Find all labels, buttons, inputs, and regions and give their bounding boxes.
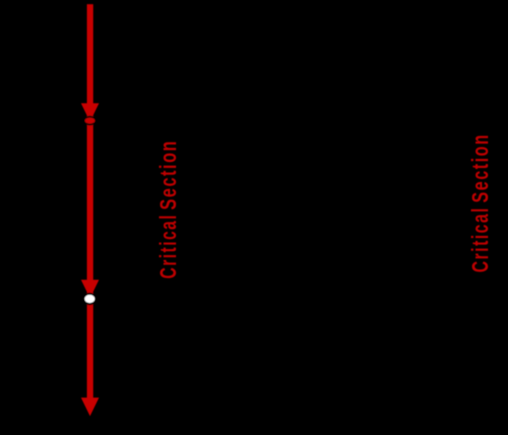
svg-text:Section: Section (467, 133, 493, 202)
svg-text:Critical: Critical (467, 207, 493, 273)
svg-text:Critical: Critical (155, 214, 181, 279)
svg-text:Section: Section (155, 140, 181, 210)
